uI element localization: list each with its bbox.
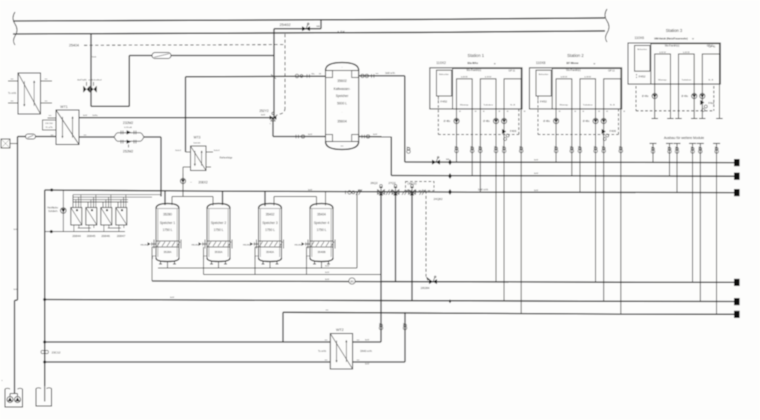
tank Speicher 2 heating coil band (207, 241, 230, 247)
Station 1 module rect 3 (504, 79, 521, 109)
heating unit stubs 20845 (87, 202, 89, 208)
wire 27Q2 drop (395, 195, 397, 282)
bus line 2 (391, 175, 735, 178)
station pump (601, 118, 606, 123)
station pump (502, 118, 507, 123)
svg-text:a. Kat: a. Kat (337, 30, 345, 34)
bus6 terminator (734, 311, 740, 318)
wire tank3 coil drain (254, 247, 256, 275)
station module Station 1 outer box (430, 68, 522, 109)
svg-text:1750 L: 1750 L (265, 228, 275, 232)
valve circle near bus1 riser (407, 148, 410, 151)
svg-text:Ø 4Bx: Ø 4Bx (583, 120, 590, 123)
bus line 6 (283, 312, 735, 314)
svg-text:Schülerh.: Schülerh. (48, 210, 58, 213)
svg-text:Ø 4Bx: Ø 4Bx (483, 120, 490, 123)
spare tap stub 2 (666, 142, 673, 144)
svg-text:35280: 35280 (163, 213, 172, 217)
gauge on riser x381 (380, 324, 383, 327)
heating unit 20844 (71, 208, 82, 226)
WT3 port left top (186, 151, 191, 153)
bus line 4 pump line (152, 281, 735, 282)
wire tank4 feed a (316, 197, 318, 206)
svg-text:3540B: 3540B (317, 250, 325, 254)
svg-text:N...B: N...B (708, 80, 713, 82)
svg-text:20845: 20845 (87, 234, 96, 238)
svg-text:WT2: WT2 (336, 328, 344, 332)
svg-text:N...B: N...B (510, 104, 515, 106)
svg-text:Wärmep.: Wärmep. (460, 103, 469, 106)
pump on bus1 (432, 160, 436, 165)
wire tank4 coil drain (306, 247, 308, 275)
heat exchanger spare WT (18, 73, 41, 114)
svg-text:zu/Schnellauf: zu/Schnellauf (88, 80, 102, 82)
wire station3 drop 2 capped (669, 84, 671, 118)
wire main return rail top (13, 31, 605, 34)
valve on drop bus6 (619, 147, 622, 150)
svg-text:Speicher: Speicher (336, 94, 350, 98)
wire station drop to bus3 (579, 109, 581, 192)
svg-text:Wo-Frankh(x): Wo-Frankh(x) (566, 69, 581, 72)
svg-text:Wärmep.: Wärmep. (560, 103, 569, 106)
station dashed future boundary (437, 96, 439, 135)
heating unit 20846 (101, 208, 112, 226)
valve 27Q2 (392, 190, 395, 194)
wire 25404 dashed (84, 44, 285, 47)
svg-text:2R284: 2R284 (421, 286, 430, 290)
valve 23C12 (41, 350, 44, 353)
tank Speicher 4 bottom drop (321, 262, 323, 269)
wire bus6 elbow down (282, 312, 284, 342)
svg-text:F4xx: F4xx (708, 101, 715, 105)
tank Speicher 1 bottom drop (167, 262, 169, 269)
tank Speicher 1 35280 (156, 204, 179, 209)
bus line 5 (45, 300, 735, 302)
Station 2 module rect 2 (580, 79, 596, 109)
svg-text:F452: F452 (540, 99, 547, 103)
svg-text:Speicher 1: Speicher 1 (160, 221, 175, 225)
svg-text:DN40 m³/h: DN40 m³/h (360, 350, 372, 353)
svg-text:Wärmep.: Wärmep. (658, 79, 667, 82)
bus2 terminator (734, 173, 740, 180)
Station 3 inner module box (651, 44, 720, 84)
svg-text:35602: 35602 (337, 79, 347, 83)
wire riser x161 down (160, 137, 162, 197)
spare WT stubs (8, 80, 18, 82)
wire tank4 feed b (325, 192, 327, 206)
svg-text:110X2: 110X2 (436, 61, 446, 65)
svg-text:F452: F452 (639, 75, 646, 79)
svg-text:25404: 25404 (69, 44, 79, 48)
wire WT2 left bottom (45, 361, 331, 363)
svg-text:(36Q2): (36Q2) (407, 181, 416, 185)
svg-text:F406: F406 (510, 129, 517, 133)
junction dot bottom (50, 230, 53, 233)
junction dots left column (43, 298, 46, 301)
tank Speicher 4 35404 (310, 204, 333, 209)
valve on drop bus3 (479, 147, 482, 150)
station F406 cluster (502, 129, 506, 134)
svg-text:DN 150: DN 150 (45, 123, 53, 125)
svg-text:35404: 35404 (317, 213, 326, 217)
svg-text:232M2: 232M2 (123, 121, 133, 125)
wire tank top-right (359, 75, 405, 77)
wire station drop to bus4 (495, 109, 497, 281)
svg-text:75 m³/h: 75 m³/h (45, 126, 53, 129)
svg-text:b.W.W: b.W.W (585, 77, 592, 79)
wire hx row rails (73, 194, 161, 196)
heating unit 20847 (116, 208, 127, 226)
valve on drop bus2 (471, 147, 474, 150)
wire station drop to bus5 (503, 109, 505, 301)
wire main supply rail top (13, 18, 605, 21)
wire coil collector line (204, 274, 382, 276)
svg-text:w: w (494, 62, 496, 65)
wire tank3 feed b (273, 197, 275, 206)
svg-text:Reihenfolge: Reihenfolge (220, 157, 233, 160)
svg-text:Ø 4Bx: Ø 4Bx (642, 95, 649, 98)
svg-text:Ausbau für weitere Module: Ausbau für weitere Module (664, 136, 704, 140)
Station 1 module rect 2 (480, 79, 496, 109)
svg-text:~: ~ (190, 180, 192, 184)
wire tank2 feed a (212, 197, 214, 206)
wire tank1 feed a (164, 191, 166, 205)
station 3 dashed future boundary (635, 86, 637, 111)
tank Speicher 4 drain tick (307, 255, 310, 257)
tank Kaltwasser-Speicher 35602 (326, 63, 359, 71)
tank Speicher 1 coil port left (151, 243, 156, 245)
tank nozzles inner (326, 71, 333, 78)
valve on drop bus4 (495, 147, 498, 150)
svg-text:betrieb: betrieb (194, 142, 201, 145)
svg-text:110X8: 110X8 (536, 61, 546, 65)
svg-text:27Q2: 27Q2 (388, 181, 396, 185)
station 3 F4xx cluster (700, 100, 704, 105)
WT3 port left bottom (183, 166, 191, 168)
wire elbow x91 (91, 105, 129, 107)
wire WT2 right top (353, 341, 381, 343)
wall connector left edge (1, 139, 10, 148)
spare tap stub 5 (697, 142, 704, 144)
svg-text:HM-4Bx: HM-4Bx (243, 245, 250, 247)
wire station3 drop 3 capped (678, 84, 680, 118)
svg-text:Ø 4Bx: Ø 4Bx (444, 120, 451, 123)
svg-text:Wo-Frankh(x): Wo-Frankh(x) (665, 44, 680, 47)
junction diamond bus3 (448, 189, 452, 195)
tank Speicher 3 drain tick (255, 255, 258, 257)
svg-text:Auf/To(R): Auf/To(R) (77, 79, 87, 82)
tank Speicher 4 heating coil band (310, 241, 333, 247)
heating unit stubs 20846 (102, 202, 104, 208)
wire station drop to bus2 (571, 109, 573, 176)
svg-text:3x4x3: 3x4x3 (175, 150, 182, 152)
wire WT1 cold in with capsule (18, 136, 57, 138)
svg-text:WT3: WT3 (194, 136, 201, 140)
svg-text:Speicher 4: Speicher 4 (314, 221, 329, 225)
svg-text:b.W.wA: b.W.wA (124, 126, 132, 129)
valve on drop bus3 (579, 147, 582, 150)
pump unit box bottom-left (5, 389, 23, 407)
Station 2 module rect 1 (556, 79, 572, 109)
svg-text:wa: wa (316, 25, 320, 28)
wire to KW tank bottom-left (273, 136, 326, 138)
wire left riser x17 down (17, 137, 19, 301)
Station 2 module rect 3 (604, 79, 621, 109)
svg-text:Verb: Verb (92, 56, 97, 59)
svg-text:Speicher 2: Speicher 2 (211, 221, 226, 225)
wire station drop to bus6 (520, 109, 522, 314)
svg-text:HM-4Bx: HM-4Bx (191, 245, 198, 247)
heating unit stubs 20847 (117, 202, 119, 208)
valve on drop bus5 (503, 147, 506, 150)
tank Speicher 2 drain tick (204, 255, 207, 257)
wire station drop to bus4 (595, 109, 597, 282)
wire 36Q2 dashed drop (425, 191, 427, 277)
wire WT2 left top (45, 341, 331, 343)
svg-text:1750 L: 1750 L (214, 228, 224, 232)
wire station drop to bus3 (479, 109, 481, 192)
tank Speicher 1 legs (160, 261, 162, 265)
bus1 terminator (734, 159, 740, 166)
svg-text:3xW: 3xW (13, 229, 17, 231)
svg-text:20844: 20844 (72, 234, 81, 238)
svg-text:N...B: N...B (610, 104, 615, 106)
svg-text:3530A: 3530A (214, 250, 222, 254)
svg-text:Station 3: Station 3 (666, 28, 683, 33)
wire WT1 hot out (79, 117, 273, 119)
svg-text:Ø 4Bx: Ø 4Bx (543, 120, 550, 123)
wire tank1 coil drain (151, 247, 153, 281)
Station 2 inner module box (552, 69, 621, 109)
valve on drop bus6 (520, 147, 523, 150)
svg-text:b.W.W: b.W.W (683, 52, 690, 54)
wire tank2 feed b (222, 191, 224, 205)
wire WT3 riser (185, 77, 187, 152)
svg-text:5000 L: 5000 L (337, 102, 347, 106)
svg-text:3xW: 3xW (13, 289, 17, 291)
bus3 terminator (734, 189, 740, 196)
wire tank bottom-right (359, 136, 392, 138)
bus4 terminator (734, 279, 740, 286)
tank Speicher 3 bottom drop (269, 262, 271, 269)
fittings tank bottom-right (361, 135, 363, 139)
tank Speicher 3 35402 (259, 204, 282, 209)
svg-text:Tx m³/h: Tx m³/h (318, 350, 327, 353)
wire tank bottom collector (158, 267, 357, 269)
Station 3 module rect 2 (679, 54, 695, 84)
station dashed future boundary (537, 96, 539, 135)
valve 26Q2 (378, 190, 381, 194)
junction diamond bus1 (448, 159, 452, 165)
svg-text:Turbulenz: Turbulenz (483, 103, 493, 106)
valve 252Y2 (270, 115, 277, 119)
pipe break mark right (605, 9, 609, 42)
tank Speicher 4 legs (314, 261, 316, 265)
wire station drop to bus5 (603, 109, 605, 301)
expansion vessel box (36, 389, 52, 407)
station module Station 3 outer box (628, 43, 720, 84)
svg-text:HM-4Bx: HM-4Bx (294, 245, 301, 247)
wire station3 drop 6 capped (718, 84, 720, 118)
fittings tank top-left (295, 74, 299, 78)
svg-text:b.W.W: b.W.W (659, 52, 666, 54)
svg-text:b.W.W: b.W.W (485, 77, 492, 79)
svg-text:26Q2: 26Q2 (370, 181, 378, 185)
svg-text:Wo-Frankh(x): Wo-Frankh(x) (467, 69, 482, 72)
spare tap stub 1 (650, 142, 657, 144)
bus line 3 main (45, 190, 735, 193)
Station 3 module rect 1 (655, 54, 671, 84)
station pump (493, 118, 498, 123)
wire tank top-left feed (186, 75, 326, 78)
svg-text:Befeuchter: Befeuchter (637, 48, 647, 51)
pump 208X2 (182, 174, 184, 197)
wire station drop to bus1 (555, 109, 557, 162)
svg-text:24Q82: 24Q82 (433, 197, 442, 201)
wire station drop to bus2 (471, 109, 473, 176)
heat exchanger WT2 (330, 334, 352, 370)
valve on drop bus2 (570, 147, 573, 150)
fitting on bus3 (348, 191, 352, 195)
wire 36Q2 drop (411, 195, 413, 301)
station pump (593, 118, 598, 123)
svg-text:w: w (692, 38, 694, 41)
svg-text:-: - (342, 66, 343, 69)
heating unit 20845 (86, 208, 97, 226)
svg-text:35604: 35604 (337, 120, 347, 124)
Station 1 inner module box (453, 69, 522, 109)
Station 3 module rect 3 (702, 54, 719, 84)
station 3 pump (700, 93, 705, 98)
svg-text:3540A: 3540A (266, 250, 274, 254)
WT3 ports right (206, 151, 213, 153)
junction dot bus5 (449, 299, 451, 303)
svg-text:Turbulenz: Turbulenz (583, 103, 593, 106)
valve on drop bus1 (555, 147, 558, 150)
tank Speicher 1 heating coil band (156, 241, 179, 247)
junction diamond bus2 (448, 173, 452, 179)
station module Station 2 outer box (529, 68, 621, 109)
svg-text:252Y2: 252Y2 (259, 109, 268, 113)
tank Speicher 2 coil port left (202, 243, 207, 245)
valve on drop bus4 (594, 147, 597, 150)
valve on drop bus5 (602, 147, 605, 150)
valve pair Auf/Zu (90, 86, 97, 93)
WT1 rating box (43, 120, 57, 130)
wire tank34 rail (274, 196, 317, 198)
station F406 cluster (602, 129, 606, 134)
wire tank2 coil drain (203, 247, 205, 275)
bus line 1 (405, 161, 735, 164)
tank Speicher 2 (207, 204, 230, 209)
Station 3 humidifier rect (635, 45, 650, 71)
svg-text:Ø 4Bx: Ø 4Bx (681, 95, 688, 98)
bus5 terminator (734, 298, 740, 305)
svg-text:(R): (R) (350, 279, 354, 283)
pipe break mark left (13, 12, 17, 45)
svg-text:Speicher 3: Speicher 3 (262, 221, 277, 225)
wire station drop to bus6 (620, 109, 622, 314)
wire collector riser to bus3 (356, 192, 358, 268)
junction cross x274 (271, 74, 276, 78)
pump 2R284 (429, 279, 433, 284)
heating unit stubs 20844 (72, 202, 74, 208)
svg-text:GP 11: GP 11 (608, 69, 615, 72)
svg-text:25402: 25402 (279, 22, 291, 27)
svg-text:HM-Heizk (Netz/Feuerwehr): HM-Heizk (Netz/Feuerwehr) (654, 36, 688, 40)
wire riser x129 (128, 56, 130, 107)
tank Speicher 2 legs (211, 261, 213, 265)
svg-text:Station 2: Station 2 (567, 53, 584, 58)
tank Speicher 2 bottom drop (218, 262, 220, 269)
spare tap stub 3 (674, 142, 681, 144)
station 3 pump (692, 93, 697, 98)
wire WT1 to bypass (79, 136, 114, 138)
wire 25402 branch (320, 20, 322, 29)
svg-text:GP 11: GP 11 (509, 69, 516, 72)
svg-text:BF-Wnnw: BF-Wnnw (566, 61, 579, 65)
wire station3 drop 4 capped (693, 84, 695, 118)
wire tank1 feed b (171, 197, 173, 206)
svg-text:HM-4Bx: HM-4Bx (140, 245, 147, 247)
Station 2 humidifier rect (536, 70, 551, 96)
spare tap stub 4 (689, 142, 696, 144)
wire left column x44 (44, 190, 46, 386)
svg-text:Heizfläche: Heizfläche (47, 208, 58, 210)
svg-text:208X2: 208X2 (198, 181, 207, 185)
svg-text:252M2: 252M2 (123, 150, 133, 154)
svg-text:3xW m³/h: 3xW m³/h (385, 72, 396, 75)
svg-text:3xW m³/h: 3xW m³/h (478, 189, 489, 192)
tank Speicher 1 drain tick (153, 255, 156, 257)
svg-text:F406: F406 (610, 129, 617, 133)
svg-text:Station 1: Station 1 (468, 53, 485, 58)
pump 25402 (302, 26, 306, 31)
svg-text:3xWa: 3xWa (92, 115, 98, 117)
pump heating circuit (62, 191, 64, 232)
valve group 232M2 (114, 133, 144, 137)
WT1 left top stub (48, 117, 57, 119)
svg-text:WT1: WT1 (60, 105, 68, 109)
svg-text:35402: 35402 (266, 213, 275, 217)
wire station3 drop 5 capped (701, 84, 703, 118)
tank Speicher 4 coil port left (305, 243, 310, 245)
svg-text:3528A: 3528A (163, 250, 171, 254)
wire station drop to bus1 (456, 109, 458, 162)
tank Speicher 3 coil port left (254, 243, 259, 245)
svg-text:Turbulenz: Turbulenz (682, 79, 692, 82)
wire station3 drop 1 capped (654, 84, 656, 118)
valve 36Q2 future (409, 190, 412, 194)
svg-text:·: · (342, 110, 343, 114)
wire return header y55 (129, 55, 274, 57)
slope ticks on bus3 (386, 190, 390, 195)
station 3 pump (652, 93, 657, 98)
svg-text:110X6: 110X6 (635, 36, 645, 40)
flow sensor on y55 (152, 53, 171, 59)
sensor R on bus4 (349, 278, 355, 284)
svg-text:20847: 20847 (117, 234, 126, 238)
flow sensor WT1 inlet (26, 134, 36, 139)
svg-text:20846: 20846 (101, 234, 110, 238)
svg-text:1750 L: 1750 L (163, 228, 173, 232)
wire 26Q2 drop (380, 195, 382, 342)
wire tank top rail (172, 196, 213, 198)
heat exchanger WT1 (56, 110, 79, 145)
valve on drop bus1 (455, 147, 458, 150)
svg-text:Tx m³/h: Tx m³/h (8, 92, 17, 95)
heating units bottom rail (45, 231, 125, 233)
